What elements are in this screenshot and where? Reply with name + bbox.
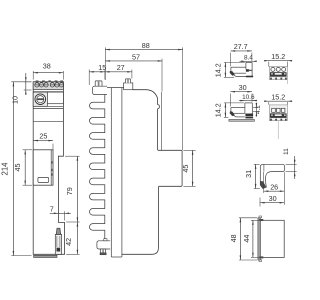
svg-text:38: 38: [43, 62, 51, 71]
dim 26: [264, 190, 285, 192]
svg-text:79: 79: [65, 187, 74, 195]
svg-text:14.2: 14.2: [214, 63, 223, 77]
svg-text:31: 31: [244, 170, 253, 178]
front view: big screw square: [33, 92, 47, 106]
detail C: wire clamp profile 2: [231, 107, 245, 109]
svg-text:4.1: 4.1: [255, 105, 262, 114]
dim 31 extension lines: [254, 163, 260, 165]
detail F: spacer strip: [259, 216, 262, 218]
dim 45 left: [24, 150, 26, 185]
side view: rear inner vertical lines: [160, 92, 162, 150]
svg-text:11: 11: [283, 148, 290, 155]
svg-text:15: 15: [98, 63, 106, 72]
dim 45 right: [192, 150, 194, 186]
svg-text:45: 45: [181, 165, 190, 173]
svg-text:27: 27: [117, 63, 125, 72]
svg-text:15.2: 15.2: [271, 92, 285, 101]
svg-text:30: 30: [239, 83, 247, 92]
dim 79 extension line: [65, 155, 80, 157]
dim 42: [76, 222, 78, 254]
dim 214 extension lines: [11, 81, 31, 83]
dim 38: [33, 72, 63, 74]
dim 30 F extension line: [259, 198, 261, 207]
detail E: bracket outline: [260, 164, 284, 188]
dim 26 extension lines: [263, 184, 265, 193]
dim 31: [255, 164, 257, 188]
detail B: terminal block front: [269, 67, 287, 80]
side view: main outline right part: [122, 90, 182, 255]
svg-text:88: 88: [142, 41, 150, 50]
front view: terminal block band: [33, 82, 63, 90]
dim 25 extension line: [52, 144, 54, 150]
dim 30 C: [230, 91, 252, 93]
dim 14.2 left A extension lines: [224, 61, 245, 63]
svg-text:10.6: 10.6: [242, 94, 255, 101]
dim 27.7: [231, 50, 252, 52]
svg-text:7: 7: [50, 204, 54, 213]
side view: top-left terminal T1: [95, 81, 102, 86]
dim 8.4: [240, 60, 256, 62]
side view: top terminal T2: [124, 83, 133, 90]
detail F: spacer body: [260, 220, 284, 257]
svg-text:27.7: 27.7: [234, 42, 248, 51]
svg-text:10: 10: [11, 96, 20, 104]
side view: inner vertical walls: [110, 88, 112, 257]
svg-text:45: 45: [13, 164, 22, 172]
dim 79: [76, 156, 78, 222]
dim 14.2 left A: [224, 62, 226, 77]
dim 30 C extension lines: [229, 94, 231, 107]
dim 44 extension lines: [251, 219, 259, 221]
svg-text:214: 214: [0, 162, 9, 176]
dim 11: [294, 156, 296, 179]
dim 10 extension lines: [24, 81, 32, 83]
detail F: dark cap nub bottom: [259, 256, 263, 258]
svg-text:57: 57: [132, 53, 140, 62]
detail F: dark cap nub top: [259, 219, 263, 221]
front view: bottom foot strip: [34, 255, 57, 257]
detail D: terminal block front 2: [269, 105, 287, 121]
svg-text:15.2: 15.2: [271, 52, 285, 61]
svg-text:48: 48: [229, 234, 238, 242]
svg-text:8.4: 8.4: [244, 55, 253, 62]
dim 15 and 27 extension lines: [88, 70, 90, 86]
dim 57: [105, 60, 162, 62]
dim 214: [12, 82, 14, 256]
dim 14.2 left C extension lines: [224, 102, 244, 104]
dim 15.2 D: [265, 100, 292, 102]
dim 48 extension lines: [239, 217, 257, 219]
side view: top edge left segment: [107, 87, 124, 89]
dim 15.2 B: [265, 60, 292, 62]
dim 27.7 extension lines: [230, 53, 232, 67]
front view: label slot: [38, 177, 49, 182]
dim 57 extension line: [161, 59, 163, 92]
dim 14.2 left C: [224, 103, 226, 118]
detail E: bracket foot (dark): [260, 181, 266, 188]
dim 45 left extension lines: [23, 149, 32, 151]
dim 15.2 D extension lines: [268, 102, 270, 105]
side view: fin column: [89, 95, 104, 241]
dim 88 extension lines: [104, 47, 106, 80]
dim 15: [89, 71, 105, 73]
dim 30 F: [260, 202, 284, 204]
front view: box right of screw: [47, 92, 63, 104]
dim 4.1 extension lines: [253, 107, 259, 109]
svg-text:30: 30: [269, 194, 277, 203]
dim 42 extension lines: [66, 221, 79, 223]
dim 4.1: [255, 103, 257, 117]
dim 45 right extension lines: [183, 149, 195, 151]
svg-text:26: 26: [270, 182, 278, 191]
dim 11 extension lines: [286, 163, 297, 165]
dim 10.6: [239, 100, 256, 102]
dim 10: [25, 73, 27, 94]
svg-text:14.2: 14.2: [214, 103, 223, 117]
dim 15.2 B extension lines: [268, 62, 270, 67]
front view: horizontal body lines: [33, 105, 63, 107]
svg-text:25: 25: [39, 131, 47, 140]
dim 7: [50, 212, 71, 214]
dim 25: [33, 140, 53, 142]
dim 48: [239, 218, 241, 260]
dim 44: [252, 220, 254, 257]
dim 27: [105, 71, 132, 73]
front view: top terminal nubs: [36, 80, 39, 82]
detail A: wire clamp profile: [231, 66, 246, 68]
dim 88: [105, 49, 182, 51]
front view: inspection window: [33, 150, 53, 185]
dim 7 extension line: [64, 211, 66, 220]
detail C: base plate: [229, 120, 255, 122]
front view: bottom DIN clamp slider: [55, 234, 61, 254]
svg-text:44: 44: [242, 235, 251, 243]
side view: bottom-left terminal: [97, 241, 110, 249]
dim 38 extension lines: [32, 71, 34, 80]
front view: device body outline: [33, 82, 64, 255]
svg-text:42: 42: [64, 238, 73, 246]
